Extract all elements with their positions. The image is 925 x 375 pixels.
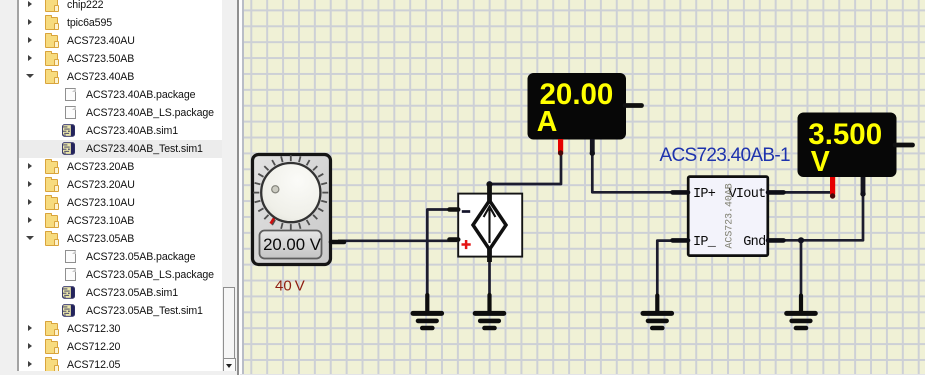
svg-text:IP+: IP+ bbox=[693, 187, 716, 202]
svg-text:IP_: IP_ bbox=[693, 235, 717, 250]
digital ammeter display 20.00 A bbox=[528, 73, 642, 156]
pin IP_ bbox=[673, 238, 689, 243]
ground G1 bbox=[413, 295, 442, 328]
svg-text:40 V: 40 V bbox=[275, 278, 305, 295]
ammeter red terminal bbox=[558, 139, 563, 152]
wire from source top node to ammeter red terminal bbox=[490, 153, 562, 197]
ground G2 bbox=[475, 295, 504, 328]
svg-text:ACS723.40AB-1: ACS723.40AB-1 bbox=[660, 145, 790, 166]
ACS723 current sensor U1 bbox=[673, 177, 784, 256]
wire from source bottom to ground G2 bbox=[488, 258, 491, 296]
pin IP+ bbox=[673, 190, 689, 195]
plus sign of source input bbox=[462, 240, 471, 249]
svg-text:ACS723.40AB: ACS723.40AB bbox=[724, 183, 735, 248]
wire from voltmeter black terminal to ground node bbox=[801, 194, 863, 240]
svg-text:A: A bbox=[537, 106, 558, 138]
svg-text:20.00 V: 20.00 V bbox=[263, 235, 322, 254]
wire from ground node down to ground G4 bbox=[800, 240, 803, 296]
pin VIout bbox=[768, 190, 784, 195]
wire from ACS Gnd pin to ground node bbox=[783, 239, 801, 242]
wire from source minus input to ground G1 bbox=[427, 210, 450, 296]
pin Gnd bbox=[768, 238, 784, 243]
voltmeter black terminal bbox=[861, 177, 866, 193]
wire from ACS VIout pin to voltmeter red terminal bbox=[783, 191, 833, 194]
svg-text:Gnd: Gnd bbox=[743, 235, 765, 250]
wire from knob output to source plus input bbox=[338, 239, 457, 242]
ammeter black terminal bbox=[590, 139, 595, 152]
interactive voltage source knob component bbox=[253, 155, 345, 265]
ground G3 bbox=[643, 296, 672, 329]
current source B1 (diamond symbol) bbox=[450, 183, 523, 262]
minus sign of source input bbox=[462, 210, 470, 213]
ground G4 bbox=[787, 296, 816, 329]
junction dot at source top node bbox=[486, 181, 492, 187]
junction dot at ground node near ACS Gnd bbox=[798, 237, 804, 243]
wire from ammeter black terminal to ACS IP+ pin bbox=[592, 153, 673, 193]
svg-text:V: V bbox=[811, 146, 830, 178]
digital voltmeter display 3.500 V bbox=[798, 113, 913, 199]
wire from ACS IP_ pin to ground G3 bbox=[657, 241, 673, 296]
voltmeter red terminal bbox=[830, 177, 835, 195]
